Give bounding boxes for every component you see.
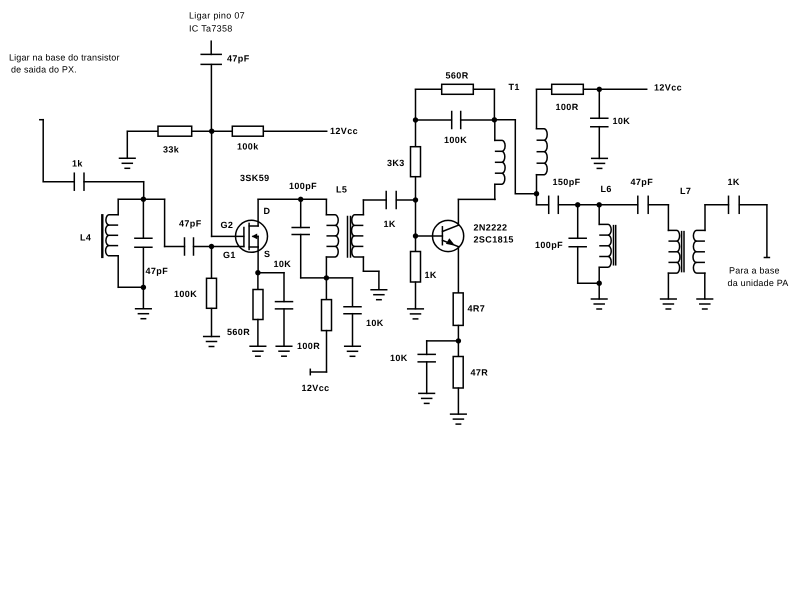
wire T1 link (494, 120, 536, 194)
wire T1 to output rail (537, 194, 549, 205)
ground 560R (250, 346, 266, 356)
svg-text:33k: 33k (163, 144, 180, 154)
inductor L5 primary (326, 199, 338, 278)
node 12Vcc right (597, 87, 602, 92)
svg-text:47pF: 47pF (179, 218, 202, 228)
ground 10K source (276, 346, 292, 356)
label L4 (80, 232, 91, 242)
svg-text:47pF: 47pF (631, 177, 654, 187)
label 1K bias (425, 270, 437, 280)
label 1K out (728, 177, 740, 187)
resistor 1K bias (411, 236, 421, 309)
label 560R source (227, 327, 250, 337)
transistor Q1 3SK59 (236, 220, 268, 252)
svg-text:L6: L6 (601, 184, 612, 194)
svg-text:1K: 1K (728, 177, 740, 187)
svg-text:L5: L5 (336, 184, 347, 194)
svg-text:2N2222: 2N2222 (474, 222, 508, 232)
node 100pF out (575, 202, 580, 207)
svg-text:12Vcc: 12Vcc (654, 82, 682, 92)
label G1 (223, 250, 236, 260)
core of L5 (348, 217, 351, 258)
inductor L5 secondary (352, 200, 379, 271)
capacitor 100pF drain (292, 199, 309, 278)
label 12Vcc feed (302, 383, 330, 393)
wire base (416, 200, 443, 236)
wire cap to L7 (648, 204, 668, 206)
svg-text:Ligar na base do transistor: Ligar na base do transistor (9, 52, 120, 62)
capacitor 100pF out (569, 205, 599, 283)
svg-text:47R: 47R (471, 367, 489, 377)
wire emitter (457, 247, 459, 293)
wire cap to G1 (194, 246, 244, 248)
core of L7 (682, 232, 684, 272)
svg-text:47pF: 47pF (227, 53, 250, 63)
node base top (413, 197, 418, 202)
svg-text:T1: T1 (509, 82, 520, 92)
node G1 bias (209, 244, 214, 249)
inductor T1 secondary (537, 89, 548, 193)
transistor Q2 2N2222 (433, 220, 464, 251)
resistor 100R L5 (322, 278, 332, 372)
capacitor 100K top (416, 112, 495, 129)
resistor 100k (232, 126, 263, 136)
note: Ligar na base do transistor / de saida do PX (9, 52, 120, 74)
svg-text:3K3: 3K3 (387, 158, 405, 168)
wire 12Vcc right (599, 88, 646, 90)
label 2SC1815 (474, 234, 514, 244)
wire input stub with tick (40, 120, 74, 182)
wire divider rail (127, 130, 326, 132)
wire L4 node to G1 cap (143, 199, 184, 246)
capacitor 150pF (549, 196, 559, 213)
node 3K3 top (413, 117, 418, 122)
svg-text:47pF: 47pF (146, 266, 169, 276)
svg-text:100pF: 100pF (535, 240, 563, 250)
svg-text:100R: 100R (297, 341, 320, 351)
ground L7 primary (661, 273, 677, 309)
svg-text:G2: G2 (221, 220, 234, 230)
label 560R top (446, 70, 469, 80)
capacitor 10K L5 (344, 278, 361, 346)
svg-text:100k: 100k (237, 141, 259, 151)
resistor 47R (453, 341, 463, 414)
label 33k (163, 144, 180, 154)
label S (264, 249, 270, 259)
node emitter (456, 338, 461, 343)
svg-text:150pF: 150pF (553, 177, 581, 187)
wire output rail (558, 204, 638, 206)
svg-text:2SC1815: 2SC1815 (474, 234, 514, 244)
ground L4 tank (136, 287, 152, 318)
label 47pF out (631, 177, 654, 187)
node L6 top (597, 202, 602, 207)
wire L7 to 1K cap (705, 204, 729, 206)
label 12Vcc right (654, 82, 682, 92)
resistor 3K3 (411, 120, 421, 200)
svg-text:100K: 100K (444, 135, 467, 145)
capacitor 47pF G1 (185, 238, 194, 255)
wire node to L4 (118, 198, 143, 200)
capacitor 47pF top (201, 41, 221, 131)
ground L6 (591, 283, 607, 309)
node divider (209, 129, 214, 134)
label 10K L5 (366, 318, 384, 328)
label 100K top (444, 135, 467, 145)
note: Ligar pino 07 / IC Ta7358 (189, 10, 245, 33)
resistor 560R source (253, 273, 263, 347)
resistor 33k (158, 126, 192, 136)
svg-text:560R: 560R (227, 327, 250, 337)
svg-text:10K: 10K (613, 116, 631, 126)
node T1 top (492, 117, 497, 122)
label 3SK59 (240, 173, 270, 183)
svg-text:1K: 1K (384, 219, 396, 229)
svg-text:1K: 1K (425, 270, 437, 280)
node L4 bottom (141, 285, 146, 290)
node base (413, 233, 418, 238)
resistor 560R top (416, 84, 495, 120)
node L6 bottom (597, 281, 602, 286)
svg-text:IC Ta7358: IC Ta7358 (189, 23, 233, 33)
capacitor 1K out (729, 196, 740, 213)
label 1K base (384, 219, 396, 229)
label 47pF G1 (179, 218, 202, 228)
ground 100K G1 (204, 337, 220, 347)
svg-text:12Vcc: 12Vcc (330, 126, 358, 136)
label 47pF top (227, 53, 250, 63)
label 2N2222 (474, 222, 508, 232)
node T1 secondary bottom (534, 191, 539, 196)
inductor L7 primary (668, 205, 680, 273)
label 150pF (553, 177, 581, 187)
svg-text:10K: 10K (274, 259, 292, 269)
core of L4 (101, 215, 103, 257)
svg-text:S: S (264, 249, 270, 259)
core of L6 (614, 226, 616, 265)
svg-text:de saida do PX.: de saida do PX. (11, 64, 77, 74)
ground L7 secondary (697, 273, 713, 309)
ground 1K bias (408, 309, 424, 319)
resistor 100K G1 (207, 247, 217, 337)
ground divider (120, 131, 136, 168)
svg-text:3SK59: 3SK59 (240, 173, 270, 183)
note: Para a base / da unidade PA (728, 265, 789, 288)
capacitor 10K source (258, 273, 293, 347)
wire drain bottom rail (301, 277, 353, 279)
inductor L7 secondary (693, 205, 705, 273)
label 4R7 (468, 303, 486, 313)
label 12Vcc left (330, 126, 358, 136)
inductor T1 primary (495, 120, 505, 200)
label 10K emitter (390, 353, 408, 363)
ground 10K emitter (419, 393, 435, 403)
wire cap to L4 node (84, 182, 144, 200)
wire source (257, 247, 259, 273)
label G2 (221, 220, 234, 230)
wire 12Vcc feed (310, 369, 326, 374)
svg-text:10K: 10K (366, 318, 384, 328)
capacitor 1k input (74, 173, 84, 190)
label 1k (72, 158, 83, 168)
ground 47R (451, 414, 467, 424)
node L5 bottom (324, 275, 329, 280)
label L6 (601, 184, 612, 194)
svg-text:L7: L7 (680, 186, 691, 196)
node source (255, 270, 260, 275)
node L4 top (141, 197, 146, 202)
label 47R (471, 367, 489, 377)
ground L5 secondary (371, 271, 387, 300)
label 100K G1 (174, 289, 197, 299)
inductor L6 (599, 205, 611, 283)
label 100pF drain (289, 181, 317, 191)
svg-text:100pF: 100pF (289, 181, 317, 191)
capacitor 47pF tank (135, 199, 152, 287)
capacitor 10K emitter (418, 341, 458, 394)
svg-text:100R: 100R (556, 102, 579, 112)
svg-text:G1: G1 (223, 250, 236, 260)
resistor 4R7 (453, 293, 463, 341)
label 3K3 (387, 158, 405, 168)
svg-text:4R7: 4R7 (468, 303, 486, 313)
wire output terminal (739, 205, 769, 258)
label L5 (336, 184, 347, 194)
label T1 (509, 82, 520, 92)
svg-text:560R: 560R (446, 70, 469, 80)
ground 10K L5 (345, 346, 361, 356)
wire drain rail (258, 199, 326, 226)
wire collector (458, 199, 495, 225)
svg-text:L4: L4 (80, 232, 91, 242)
label 100k (237, 141, 259, 151)
svg-text:Ligar pino 07: Ligar pino 07 (189, 10, 245, 20)
label 100R top (556, 102, 579, 112)
label 10K source (274, 259, 292, 269)
label 100R L5 (297, 341, 320, 351)
ground 10K right (592, 158, 608, 168)
svg-text:12Vcc: 12Vcc (302, 383, 330, 393)
label 100pF out (535, 240, 563, 250)
wire G2 bias (212, 131, 244, 236)
resistor 100R top (537, 84, 600, 94)
node 100pF drain (298, 197, 303, 202)
label D (264, 206, 271, 216)
inductor L4 (106, 199, 144, 287)
label 47pF tank (146, 266, 169, 276)
capacitor 1K base (363, 192, 415, 209)
label L7 (680, 186, 691, 196)
capacitor 47pF out (638, 196, 648, 213)
svg-text:100K: 100K (174, 289, 197, 299)
svg-text:1k: 1k (72, 158, 83, 168)
label 10K right (613, 116, 631, 126)
svg-text:10K: 10K (390, 353, 408, 363)
capacitor 10K right (591, 89, 608, 158)
svg-text:da unidade PA: da unidade PA (728, 278, 789, 288)
svg-text:Para a base: Para a base (729, 265, 780, 275)
svg-text:D: D (264, 206, 271, 216)
